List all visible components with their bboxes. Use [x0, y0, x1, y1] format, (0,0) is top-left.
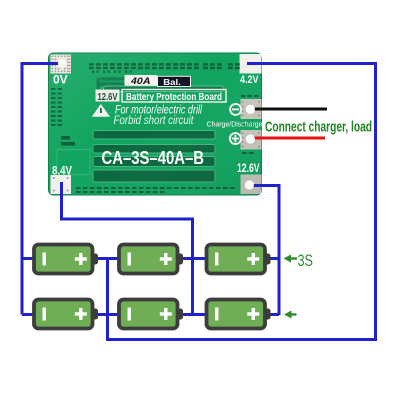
svg-text:12.6V: 12.6V — [237, 163, 260, 175]
svg-text:Charge/Discharge: Charge/Discharge — [207, 120, 263, 129]
svg-text:12.6V: 12.6V — [98, 92, 118, 103]
svg-text:Battery Protection Board: Battery Protection Board — [126, 92, 222, 103]
svg-text:40A: 40A — [130, 76, 151, 87]
svg-text:Bal.: Bal. — [163, 77, 181, 87]
svg-text:0V: 0V — [53, 73, 68, 87]
svg-text:Connect charger, load: Connect charger, load — [265, 119, 372, 136]
svg-text:3S: 3S — [298, 251, 314, 270]
svg-text:8.4V: 8.4V — [52, 166, 72, 178]
svg-text:CA–3S–40A–B: CA–3S–40A–B — [102, 148, 205, 168]
svg-text:4.2V: 4.2V — [240, 74, 259, 86]
svg-text:Forbid short circuit: Forbid short circuit — [114, 115, 195, 127]
